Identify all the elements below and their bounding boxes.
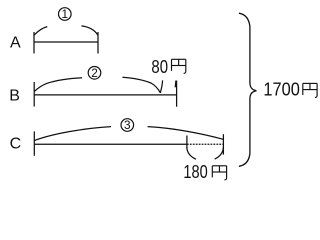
svg-text:3: 3	[124, 118, 131, 132]
svg-text:80: 80	[151, 56, 168, 77]
svg-text:1700: 1700	[263, 78, 299, 99]
svg-text:2: 2	[91, 66, 98, 80]
svg-text:A: A	[10, 34, 21, 51]
svg-text:B: B	[9, 87, 20, 104]
svg-text:180: 180	[183, 161, 207, 182]
svg-text:1: 1	[62, 7, 69, 21]
svg-text:C: C	[10, 135, 22, 152]
